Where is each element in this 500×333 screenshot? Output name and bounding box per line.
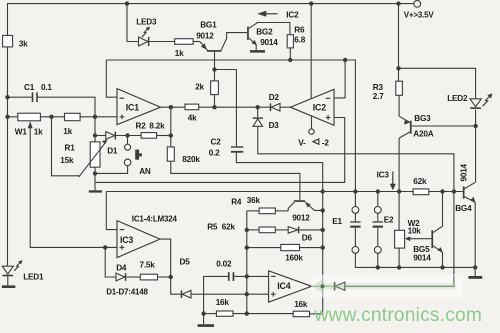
svg-text:36k: 36k bbox=[247, 196, 261, 205]
svg-text:0.1: 0.1 bbox=[41, 83, 52, 92]
node left rail C1 row bbox=[5, 95, 9, 99]
node bus W2 bbox=[397, 189, 401, 193]
LED LED2 bbox=[470, 93, 493, 108]
node rail IC2 minus junction bbox=[343, 58, 347, 62]
node top rail junction B bbox=[309, 1, 313, 5]
label IC4 bbox=[277, 281, 290, 291]
svg-text:9012: 9012 bbox=[196, 32, 214, 41]
wire D7 to bus col bbox=[345, 192, 454, 287]
wire W1 wiper to IC3 plus bbox=[30, 123, 117, 248]
node 16k row ground junction bbox=[201, 311, 205, 315]
wire C2 to column bbox=[236, 153, 322, 192]
capacitor E2 bbox=[373, 213, 383, 246]
label R4 bbox=[231, 197, 242, 206]
svg-text:IC2: IC2 bbox=[286, 10, 299, 19]
wire 2k to output node bbox=[214, 95, 216, 108]
arrow R1 wiper bbox=[79, 140, 108, 177]
svg-text:BG1: BG1 bbox=[200, 20, 217, 29]
node W1 row tap bbox=[49, 115, 53, 119]
node IC1 output bbox=[169, 105, 173, 109]
op-amp IC1 bbox=[117, 89, 161, 125]
wire 4k to D2 bbox=[199, 106, 270, 108]
wire IC2 V+ stub bbox=[310, 4, 312, 99]
label D1 bbox=[107, 147, 118, 156]
wire C1 row left bbox=[8, 96, 32, 98]
resistor 36k bbox=[259, 208, 275, 214]
svg-text:7.5k: 7.5k bbox=[140, 260, 156, 269]
label 4k bbox=[188, 113, 197, 122]
svg-text:4k: 4k bbox=[188, 113, 197, 122]
node 2k bottom junction bbox=[212, 105, 216, 109]
label LED2 bbox=[447, 94, 468, 103]
resistor R3 bbox=[396, 81, 403, 95]
label 9012 (BG1) bbox=[196, 32, 214, 41]
wire IC1 minus feedback bbox=[106, 60, 117, 97]
watermark halo band bbox=[311, 275, 463, 298]
svg-text:R4: R4 bbox=[231, 197, 242, 206]
ground (BG2) bbox=[250, 50, 265, 53]
terminal AN top bbox=[125, 144, 131, 150]
svg-text:www.cntronics.com: www.cntronics.com bbox=[314, 305, 483, 326]
label BG2 bbox=[256, 27, 273, 36]
label 36k bbox=[247, 196, 261, 205]
svg-text:0.2: 0.2 bbox=[209, 148, 220, 157]
node BG3 base junction bbox=[473, 124, 477, 128]
wire branch to LED2 bbox=[399, 68, 476, 99]
resistor 16k (left) bbox=[216, 311, 233, 316]
wire D6 to column bbox=[299, 229, 322, 231]
node ground bus E2 bbox=[376, 265, 380, 269]
wire to 820k bbox=[170, 136, 172, 147]
wire 1k to BG1 emitter bbox=[193, 41, 200, 43]
node top rail junction C bbox=[396, 1, 400, 5]
label W2 bbox=[408, 219, 421, 228]
label V+>3.5V bbox=[404, 11, 435, 20]
watermark green arrow bbox=[312, 279, 456, 293]
svg-text:AN: AN bbox=[139, 167, 151, 176]
wire IC1 out to D1 row bbox=[170, 107, 172, 135]
label 15k bbox=[60, 156, 74, 165]
wire C1 row right bbox=[38, 97, 95, 142]
label 9014 (BG5) bbox=[413, 253, 431, 262]
wire bus to IC3 minus bbox=[106, 192, 117, 230]
annotation IC3 arrow bbox=[377, 170, 396, 190]
svg-text:1k: 1k bbox=[175, 49, 184, 58]
diode D6 bbox=[288, 227, 299, 234]
node 160k row x247 bbox=[245, 245, 249, 249]
wire D7 row over halo bbox=[345, 276, 454, 286]
wire D5 to IC4 plus bbox=[191, 293, 269, 295]
ground (right) bbox=[468, 267, 482, 278]
label 0.2 bbox=[209, 148, 220, 157]
diode D4 bbox=[116, 273, 126, 281]
terminal E1 top bbox=[352, 207, 359, 214]
svg-text:IC1-4:LM324: IC1-4:LM324 bbox=[132, 214, 178, 223]
diode D3 bbox=[253, 117, 263, 126]
svg-text:W1: W1 bbox=[15, 127, 28, 136]
svg-text:2k: 2k bbox=[195, 82, 204, 91]
LED LED1 bbox=[2, 260, 22, 276]
resistor 4k bbox=[185, 104, 199, 110]
wire 1k to IC1 plus bbox=[80, 116, 117, 118]
label 160k bbox=[285, 253, 303, 262]
label D3 bbox=[269, 121, 280, 130]
label 2k bbox=[195, 82, 204, 91]
wire IC3 output bbox=[160, 239, 171, 277]
node ground bus end bbox=[473, 265, 477, 269]
wire main bus bbox=[106, 191, 413, 193]
svg-text:9012: 9012 bbox=[292, 213, 310, 222]
svg-text:D5: D5 bbox=[180, 257, 191, 266]
label 9014 (BG4) bbox=[460, 163, 469, 181]
label 2.7 bbox=[373, 92, 384, 101]
wire 36k row bbox=[247, 210, 259, 212]
terminal E1 bottom bbox=[352, 247, 359, 254]
wire IC2 V- stub bbox=[311, 116, 313, 128]
ground (R1) bbox=[89, 190, 102, 192]
svg-text:V-: V- bbox=[298, 139, 306, 148]
node IC3 plus junction bbox=[103, 245, 107, 249]
wire W1 to 1k bbox=[40, 116, 64, 118]
label 62k bbox=[413, 177, 427, 186]
wire D2 to IC2 output bbox=[280, 106, 291, 108]
wire x322 column bbox=[322, 192, 324, 314]
svg-text:160k: 160k bbox=[285, 253, 303, 262]
label E1 bbox=[332, 217, 342, 226]
svg-text:C1: C1 bbox=[24, 83, 35, 92]
svg-text:E1: E1 bbox=[332, 217, 342, 226]
node bus x322 bbox=[321, 189, 325, 193]
wire node to D5 bbox=[171, 277, 181, 294]
wire 36k to 9012 bbox=[275, 210, 288, 212]
label IC1 bbox=[126, 103, 139, 113]
svg-text:BG4: BG4 bbox=[455, 204, 472, 213]
transistor BG1 base bar bbox=[207, 50, 222, 52]
label D6 bbox=[302, 233, 313, 242]
label 16k (right) bbox=[294, 300, 308, 309]
transistor BG3 base bar bbox=[410, 121, 412, 134]
wire base node to C2 bbox=[215, 70, 237, 147]
label V- < -2 bbox=[298, 139, 329, 148]
label D1-D7:4148 bbox=[106, 288, 148, 297]
wire rail col to D1 bbox=[95, 135, 106, 137]
op-amp IC2 bbox=[290, 89, 334, 125]
label 1k (LED3) bbox=[175, 49, 184, 58]
node 16k row x247 bbox=[245, 311, 249, 315]
node bus D7 col bbox=[452, 189, 456, 193]
BG3 base wire bbox=[412, 125, 476, 127]
label IC3 bbox=[120, 235, 133, 245]
label 6.8 bbox=[294, 36, 305, 45]
svg-text:IC2: IC2 bbox=[313, 102, 326, 112]
watermark text bbox=[314, 305, 483, 326]
IC3 minus mark bbox=[120, 229, 125, 231]
wire left rail upper bbox=[7, 3, 9, 35]
label C2 bbox=[211, 138, 222, 147]
transistor BG2 base bar bbox=[247, 27, 249, 40]
node D3 junction bbox=[256, 105, 260, 109]
node D5 row x247 bbox=[245, 292, 249, 296]
label R1 bbox=[65, 143, 76, 152]
transistor BG5 base bar bbox=[431, 230, 433, 248]
wire D1 to R2 bbox=[116, 135, 141, 137]
svg-text:IC4: IC4 bbox=[277, 281, 290, 291]
wire E1 bottom to ground bus bbox=[355, 253, 475, 268]
svg-text:0.02: 0.02 bbox=[216, 259, 232, 268]
svg-text:9014: 9014 bbox=[413, 253, 431, 262]
node R1 bottom junction bbox=[93, 171, 97, 175]
transistor 9012 base bar bbox=[294, 200, 305, 202]
label BG5 bbox=[413, 245, 430, 254]
svg-text:V+>3.5V: V+>3.5V bbox=[404, 11, 435, 20]
node V+ branch bbox=[396, 66, 400, 70]
wire 62k to BG4 base bbox=[429, 191, 463, 193]
BG2 emitter bbox=[249, 38, 257, 50]
op-amp IC4 bbox=[269, 271, 312, 302]
wire LED2 to BG3 base node bbox=[475, 110, 477, 183]
wire R6 to rail bbox=[289, 48, 291, 60]
BG3 collector bbox=[399, 132, 410, 192]
wire IC4 output bbox=[312, 285, 334, 287]
diode D7 bbox=[334, 282, 345, 290]
label R6 bbox=[294, 25, 305, 34]
wire IC3 plus col to D4 bbox=[105, 247, 116, 277]
wire 7.5k to node bbox=[158, 276, 171, 278]
resistor R5 bbox=[259, 227, 275, 233]
node bus E2 bbox=[376, 189, 380, 193]
label 10k bbox=[408, 227, 422, 236]
node 0.02 row x247 bbox=[245, 274, 249, 278]
resistor 2k bbox=[211, 81, 219, 95]
label 1k (W1) bbox=[34, 127, 43, 136]
label LED1 bbox=[23, 272, 44, 281]
svg-text:3k: 3k bbox=[19, 39, 28, 48]
label 7.5k bbox=[140, 260, 156, 269]
svg-text:15k: 15k bbox=[60, 156, 74, 165]
svg-text:1k: 1k bbox=[63, 127, 72, 136]
wire E1 top stub bbox=[354, 192, 356, 207]
wire W2 top stub bbox=[398, 192, 400, 231]
label R2 8.2k bbox=[136, 121, 166, 130]
label IC1-4:LM324 bbox=[132, 214, 178, 223]
resistor 1k (LED3) bbox=[175, 39, 193, 45]
potentiometer W2 bbox=[395, 230, 405, 248]
BG1 emitter bbox=[200, 42, 208, 51]
svg-text:D6: D6 bbox=[302, 233, 313, 242]
wire R5 to D6 bbox=[275, 229, 288, 231]
wire top supply rail V+ bbox=[8, 3, 414, 5]
ground (16k row) bbox=[198, 324, 214, 327]
label 0.02 bbox=[216, 259, 232, 268]
wire AN top stub bbox=[127, 136, 129, 145]
svg-text:LED1: LED1 bbox=[23, 272, 44, 281]
label IC2 annotation bbox=[286, 10, 299, 19]
svg-text:D1: D1 bbox=[107, 147, 118, 156]
IC4 minus mark bbox=[271, 275, 276, 277]
wire LED1 to ground bbox=[7, 276, 9, 285]
wire 16k row middle bbox=[233, 313, 293, 315]
LED LED3 bbox=[139, 27, 151, 46]
terminal E2 bottom bbox=[374, 247, 381, 254]
node C1/IC1 plus junction bbox=[93, 115, 97, 119]
wire LED3 to 1k bbox=[149, 41, 174, 43]
wire E2 top stub bbox=[377, 192, 379, 207]
label E2 bbox=[384, 215, 394, 224]
label BG1 bbox=[200, 20, 217, 29]
IC2 minus mark bbox=[326, 97, 331, 99]
resistor R2 bbox=[141, 133, 157, 139]
BG5 emitter bbox=[433, 246, 443, 268]
BG4 emitter bbox=[465, 197, 476, 268]
node col D6 row bbox=[321, 228, 325, 232]
resistor 160k bbox=[281, 244, 300, 250]
wire 160k row right bbox=[300, 247, 323, 249]
wire 16k to IC4 out col bbox=[310, 313, 323, 315]
terminal V+ input bbox=[414, 0, 421, 7]
BG3 emitter bbox=[399, 95, 410, 124]
label W1 bbox=[15, 127, 28, 136]
node 820k top bbox=[169, 133, 173, 137]
transistor BG4 base bar bbox=[463, 186, 465, 198]
node 9012 emitter junction bbox=[321, 208, 325, 212]
svg-text:R1: R1 bbox=[65, 143, 76, 152]
label R3 bbox=[373, 83, 384, 92]
diode D1 bbox=[106, 132, 116, 140]
ground (LED1) bbox=[2, 285, 15, 288]
wire R3 stub bbox=[398, 68, 400, 81]
node IC3 out / D4 junction bbox=[169, 275, 173, 279]
label 16k (left) bbox=[216, 298, 230, 307]
diode D5 bbox=[181, 290, 191, 298]
svg-text:16k: 16k bbox=[216, 298, 230, 307]
terminal E2 top bbox=[374, 207, 381, 214]
svg-text:BG2: BG2 bbox=[256, 27, 273, 36]
resistor 1k (input) bbox=[65, 113, 81, 120]
IC2 plus mark bbox=[326, 115, 331, 120]
node IC4 out over halo bbox=[320, 284, 324, 288]
svg-text:9014: 9014 bbox=[460, 163, 469, 181]
label 3k bbox=[19, 39, 28, 48]
wire rail to W1 bbox=[8, 116, 18, 118]
wire V+ branch down bbox=[398, 4, 400, 69]
potentiometer W1 bbox=[18, 113, 41, 121]
W2 wiper arrow bbox=[405, 236, 432, 241]
capacitor C1 bbox=[32, 92, 38, 102]
wire D3 to right bus bbox=[258, 126, 454, 191]
wire R5 row bbox=[247, 229, 259, 231]
svg-text:LED2: LED2 bbox=[447, 94, 468, 103]
label D4 bbox=[116, 263, 127, 272]
svg-text:LED3: LED3 bbox=[136, 17, 157, 26]
node D1/AN junction bbox=[125, 133, 129, 137]
BG4 collector bbox=[465, 182, 476, 188]
IC3 plus mark bbox=[120, 245, 125, 250]
node ground bus W2 bbox=[397, 265, 401, 269]
svg-text:8.2k: 8.2k bbox=[149, 121, 165, 130]
label C1 0.1 bbox=[24, 83, 52, 92]
BG5 collector bbox=[433, 192, 442, 233]
IC4 plus mark bbox=[271, 292, 276, 297]
svg-text:R5: R5 bbox=[207, 222, 218, 231]
node top rail junction A bbox=[125, 1, 129, 5]
capacitor C2 bbox=[231, 146, 243, 152]
wire 0.02 to IC4 minus bbox=[234, 275, 268, 277]
svg-text:820k: 820k bbox=[182, 155, 200, 164]
resistor 62k bbox=[413, 189, 429, 195]
resistor 7.5k bbox=[140, 274, 157, 280]
annotation arrow IC2 bbox=[257, 11, 277, 17]
node BG1 base junction bbox=[212, 67, 216, 71]
svg-text:16k: 16k bbox=[294, 300, 308, 309]
IC1 plus mark bbox=[120, 114, 125, 119]
resistor 16k (right) bbox=[293, 311, 309, 317]
label D2 bbox=[269, 93, 280, 102]
svg-text:E2: E2 bbox=[384, 215, 394, 224]
label R5 62k bbox=[207, 222, 235, 231]
BG1 collector to BG2 base bbox=[221, 33, 247, 51]
label BG3 bbox=[414, 114, 431, 123]
node col 160k row bbox=[321, 245, 325, 249]
9012 right leg bbox=[305, 202, 323, 211]
wire IC1 out to 4k bbox=[161, 106, 186, 108]
terminal AN bottom bbox=[124, 159, 131, 166]
terminal IC2 V- bbox=[309, 129, 314, 134]
node ground bus BG5 bbox=[440, 265, 444, 269]
resistor R6 bbox=[287, 35, 293, 48]
wire BG1 base column bbox=[214, 52, 216, 81]
wire W2 bottom stub bbox=[398, 248, 400, 267]
wire AN bottom to ground node bbox=[95, 166, 128, 174]
resistor 820k bbox=[167, 147, 174, 161]
node left rail W1 row bbox=[5, 115, 9, 119]
svg-text:10k: 10k bbox=[408, 227, 422, 236]
node bus E1 bbox=[353, 189, 357, 193]
push button AN actuator bbox=[135, 150, 142, 160]
label LED3 bbox=[136, 17, 157, 26]
label 9012 (mid) bbox=[292, 213, 310, 222]
label AN bbox=[139, 167, 151, 176]
wire ground node to 16k bbox=[204, 313, 217, 315]
wire E2 bottom stub bbox=[377, 253, 379, 268]
wire tap to R1 wiper bbox=[52, 117, 80, 176]
label 1k (input) bbox=[63, 127, 72, 136]
svg-text:BG3: BG3 bbox=[414, 114, 431, 123]
arrow W1 wiper bbox=[28, 121, 33, 128]
rheostat R1 bbox=[90, 142, 100, 167]
op-amp IC3 bbox=[117, 221, 160, 258]
wire mid supply rail bbox=[106, 60, 355, 192]
svg-text:D4: D4 bbox=[116, 263, 127, 272]
wire R1 to ground bbox=[94, 167, 96, 190]
node D1 row left bbox=[93, 133, 97, 137]
label IC2 bbox=[313, 102, 326, 112]
wire 0.02 row bbox=[204, 276, 228, 324]
svg-text:IC3: IC3 bbox=[377, 170, 390, 179]
diode D7 over halo bbox=[334, 282, 345, 290]
capacitor E1 bbox=[350, 213, 360, 246]
wire left rail lower bbox=[7, 47, 9, 266]
label BG4 bbox=[455, 204, 472, 213]
svg-text:IC1: IC1 bbox=[126, 103, 139, 113]
svg-text:1k: 1k bbox=[34, 127, 43, 136]
svg-text:62k: 62k bbox=[413, 177, 427, 186]
svg-text:IC3: IC3 bbox=[120, 235, 133, 245]
svg-text:R2: R2 bbox=[136, 121, 147, 130]
wire IC2 plus input bbox=[95, 118, 345, 183]
svg-text:D2: D2 bbox=[269, 93, 280, 102]
node col IC4 out bbox=[320, 284, 324, 288]
wire R2 to IC1 output col bbox=[157, 135, 171, 137]
